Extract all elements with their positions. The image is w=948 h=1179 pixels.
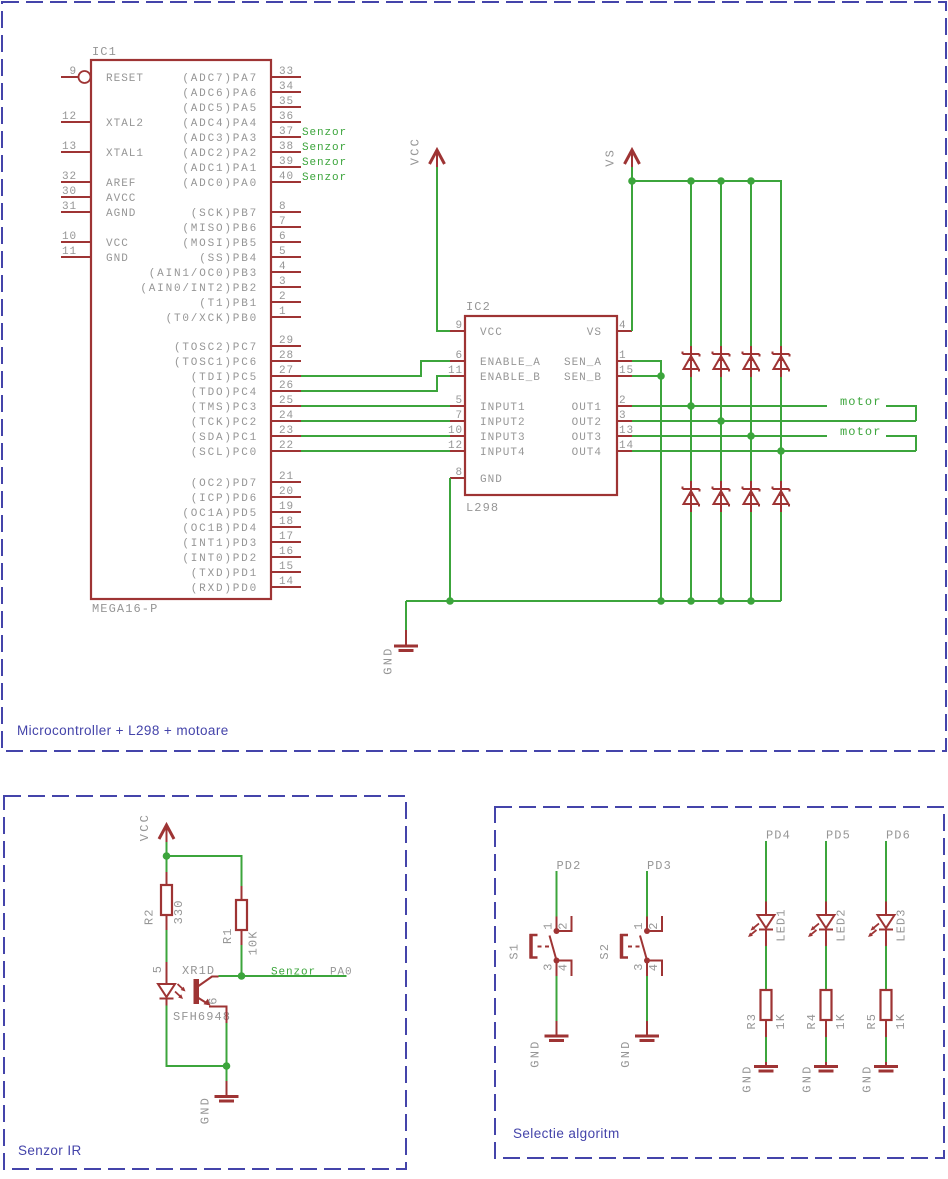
IC1 pin 14 (RXD)PD0 bbox=[191, 576, 301, 595]
resistor R3 pin bottom bbox=[765, 1020, 767, 1037]
svg-text:INPUT1: INPUT1 bbox=[480, 402, 526, 414]
svg-text:(SCK)PB7: (SCK)PB7 bbox=[191, 208, 258, 220]
LED LED3 symbol bbox=[878, 915, 895, 946]
svg-text:33: 33 bbox=[279, 66, 294, 78]
optocoupler XR1D light arrow 2 bbox=[175, 992, 183, 1000]
IC1 pin 12 XTAL2 bbox=[61, 111, 144, 130]
svg-text:(TCK)PC2: (TCK)PC2 bbox=[191, 417, 258, 429]
ground symbol S1 bbox=[545, 1021, 569, 1041]
svg-text:motor: motor bbox=[840, 395, 882, 409]
IC1 pin 10 VCC bbox=[61, 231, 129, 250]
IC1 pin 2 (T1)PB1 bbox=[199, 291, 301, 310]
svg-text:INPUT4: INPUT4 bbox=[480, 447, 526, 459]
svg-text:2: 2 bbox=[647, 921, 661, 929]
svg-text:23: 23 bbox=[279, 425, 294, 437]
LED LED3 light arrow 1 bbox=[871, 924, 880, 931]
svg-text:17: 17 bbox=[279, 531, 294, 543]
svg-text:S1: S1 bbox=[508, 943, 522, 960]
junction rail column 3 bbox=[747, 597, 755, 605]
svg-text:12: 12 bbox=[62, 111, 77, 123]
switch S2 pin 4 hook bbox=[647, 961, 662, 977]
svg-text:30: 30 bbox=[62, 186, 77, 198]
wire junction to R1 top bbox=[167, 856, 242, 886]
wire diode column 4 lower bbox=[780, 511, 782, 601]
svg-text:GND: GND bbox=[741, 1064, 755, 1092]
power symbol VCC arrow bbox=[430, 150, 445, 167]
junction rail column 1 bbox=[687, 597, 695, 605]
wire PD6 to LED3 bbox=[885, 841, 887, 902]
svg-text:(TDI)PC5: (TDI)PC5 bbox=[191, 372, 258, 384]
wire R3 to ground bbox=[765, 1037, 767, 1062]
IC1 pin 29 (TOSC2)PC7 bbox=[174, 335, 301, 354]
svg-text:INPUT3: INPUT3 bbox=[480, 432, 526, 444]
power symbol VCC arrow sensor bbox=[159, 825, 174, 842]
IC1 pin 9 RESET bbox=[61, 66, 144, 85]
svg-text:XTAL2: XTAL2 bbox=[106, 118, 144, 130]
svg-text:R3: R3 bbox=[745, 1013, 759, 1030]
IC1 pin 7 (MISO)PB6 bbox=[182, 216, 301, 235]
svg-text:VS: VS bbox=[587, 327, 602, 339]
ground symbol main bbox=[394, 630, 418, 651]
junction sensor node bbox=[238, 972, 246, 980]
svg-text:S2: S2 bbox=[598, 943, 612, 960]
svg-text:PD5: PD5 bbox=[826, 829, 851, 843]
svg-text:LED2: LED2 bbox=[835, 908, 849, 941]
optocoupler XR1D light arrow 1 bbox=[178, 984, 186, 992]
svg-text:12: 12 bbox=[448, 440, 463, 452]
wire PC3 to INPUT1 bbox=[301, 405, 450, 407]
wire sensor node to collector bbox=[219, 975, 242, 977]
wire PD2 to switch S1 bbox=[556, 871, 558, 917]
IC2 pin 5 INPUT1 bbox=[450, 395, 526, 414]
IC2 pin 14 OUT4 bbox=[572, 440, 634, 459]
IC2 pin 6 ENABLE_A bbox=[450, 350, 541, 369]
svg-text:GND: GND bbox=[861, 1064, 875, 1092]
svg-text:(SS)PB4: (SS)PB4 bbox=[199, 253, 258, 265]
wire diode column 1 lower bbox=[690, 511, 692, 601]
junction rail diode column 1 bbox=[687, 177, 695, 185]
svg-text:PD3: PD3 bbox=[647, 859, 672, 873]
svg-text:14: 14 bbox=[279, 576, 294, 588]
driver IC2 L298 body bbox=[465, 316, 617, 495]
optocoupler XR1D LED pin bbox=[166, 962, 168, 984]
IC1 pin 37 (ADC3)PA3 bbox=[182, 126, 301, 145]
LED LED3 anode pin bbox=[885, 902, 887, 916]
IC1 pin 19 (OC1A)PD5 bbox=[182, 501, 301, 520]
IC1 pin 32 AREF bbox=[61, 171, 136, 190]
svg-text:GND: GND bbox=[480, 474, 503, 486]
wire PD3 to switch S2 bbox=[646, 871, 648, 917]
wire OUT3 left segment bbox=[632, 435, 827, 437]
wire SEN_B to SEN column bbox=[632, 375, 661, 377]
junction rail column 2 bbox=[717, 597, 725, 605]
svg-text:31: 31 bbox=[62, 201, 77, 213]
svg-text:7: 7 bbox=[279, 216, 287, 228]
svg-text:9: 9 bbox=[69, 66, 77, 78]
IC2 pin 10 INPUT3 bbox=[448, 425, 526, 444]
svg-text:PD4: PD4 bbox=[766, 829, 791, 843]
IC1 pin 11 GND bbox=[61, 246, 129, 265]
wire junction to R2 top bbox=[166, 856, 168, 872]
LED LED1 symbol bbox=[758, 915, 775, 946]
LED LED1 light arrow 1 bbox=[751, 924, 760, 931]
svg-text:5: 5 bbox=[279, 246, 287, 258]
svg-text:4: 4 bbox=[279, 261, 287, 273]
svg-text:39: 39 bbox=[279, 156, 294, 168]
switch S1 pin 3 bbox=[556, 961, 558, 977]
IC1 pin 27 (TDI)PC5 bbox=[191, 365, 301, 384]
power symbol VS arrow bbox=[625, 150, 640, 167]
resistor R1 pin top bbox=[241, 886, 243, 900]
IC2 pin 13 OUT3 bbox=[572, 425, 634, 444]
wire PC0 to INPUT4 bbox=[301, 450, 450, 452]
switch S2 pin 3 bbox=[646, 961, 648, 977]
svg-text:GND: GND bbox=[199, 1096, 213, 1124]
junction OUT2 diode column 2 bbox=[717, 417, 725, 425]
junction SEN_B bbox=[657, 372, 665, 380]
wire LED2 to R4 bbox=[825, 946, 827, 990]
IC2 pin 2 OUT1 bbox=[572, 395, 632, 414]
IC1 pin 3 (AIN0/INT2)PB2 bbox=[140, 276, 301, 295]
svg-text:29: 29 bbox=[279, 335, 294, 347]
svg-text:R4: R4 bbox=[805, 1013, 819, 1030]
resistor R2 pin bottom bbox=[166, 915, 168, 930]
IC1 pin 38 (ADC2)PA2 bbox=[182, 141, 301, 160]
svg-text:(T0/XCK)PB0: (T0/XCK)PB0 bbox=[166, 313, 258, 325]
svg-text:(OC1A)PD5: (OC1A)PD5 bbox=[182, 508, 258, 520]
svg-text:8: 8 bbox=[279, 201, 287, 213]
IC1 pin 13 XTAL1 bbox=[61, 141, 144, 160]
IC1 pin 1 (T0/XCK)PB0 bbox=[166, 306, 301, 325]
wire switch S1 to ground bbox=[556, 976, 558, 1021]
wire diode column 3 middle bbox=[750, 377, 752, 481]
svg-text:4: 4 bbox=[647, 963, 661, 971]
wire diode column 1 middle bbox=[690, 377, 692, 481]
optocoupler XR1D collector bbox=[199, 977, 219, 987]
wire VCC to divider junction bbox=[166, 842, 168, 856]
svg-text:4: 4 bbox=[557, 963, 571, 971]
svg-text:15: 15 bbox=[279, 561, 294, 573]
wire OUT1 left segment bbox=[632, 405, 827, 407]
resistor R2 body bbox=[161, 885, 172, 915]
wire node to GND bbox=[226, 1066, 228, 1081]
switch S1 contact dot 2 bbox=[554, 958, 560, 964]
switch S2 pin 1 bbox=[646, 917, 648, 932]
svg-text:18: 18 bbox=[279, 516, 294, 528]
svg-text:INPUT2: INPUT2 bbox=[480, 417, 526, 429]
svg-text:MEGA16-P: MEGA16-P bbox=[92, 602, 158, 616]
svg-text:27: 27 bbox=[279, 365, 294, 377]
svg-text:3: 3 bbox=[279, 276, 287, 288]
svg-text:Microcontroller + L298 + motoa: Microcontroller + L298 + motoare bbox=[17, 723, 229, 738]
switch S2 actuator bracket bbox=[620, 934, 628, 959]
wire diode column 2 middle bbox=[720, 377, 722, 481]
svg-text:3: 3 bbox=[632, 962, 646, 970]
svg-text:28: 28 bbox=[279, 350, 294, 362]
optocoupler XR1D emitter with arrow bbox=[199, 998, 227, 1023]
wire sensor net Senzor PA0 bbox=[242, 975, 347, 977]
svg-text:L298: L298 bbox=[466, 501, 499, 515]
IC2 pin 15 SEN_B bbox=[564, 365, 634, 384]
switch S1 actuator bracket bbox=[530, 934, 538, 959]
svg-text:GND: GND bbox=[619, 1039, 633, 1067]
IC2 pin 1 SEN_A bbox=[564, 350, 632, 369]
IC1 pin 6 (MOSI)PB5 bbox=[182, 231, 301, 250]
svg-text:32: 32 bbox=[62, 171, 77, 183]
svg-text:(SDA)PC1: (SDA)PC1 bbox=[191, 432, 258, 444]
svg-text:6: 6 bbox=[207, 996, 221, 1004]
svg-text:IC1: IC1 bbox=[92, 45, 117, 59]
wire IC2 pin 8 to ground rail bbox=[449, 478, 451, 601]
svg-text:16: 16 bbox=[279, 546, 294, 558]
svg-text:IC2: IC2 bbox=[466, 300, 491, 314]
IC1 pin 34 (ADC6)PA6 bbox=[182, 81, 301, 100]
junction VCC divider bbox=[163, 852, 171, 860]
LED LED3 light arrow 2 bbox=[868, 930, 877, 937]
svg-text:14: 14 bbox=[619, 440, 634, 452]
svg-text:LED1: LED1 bbox=[775, 908, 789, 941]
wire VS vertical to IC2 pin 4 bbox=[631, 167, 633, 331]
svg-text:(AIN0/INT2)PB2: (AIN0/INT2)PB2 bbox=[140, 283, 258, 295]
svg-text:2: 2 bbox=[279, 291, 287, 303]
wire R5 to ground bbox=[885, 1037, 887, 1062]
switch S1 actuator dashed link bbox=[538, 946, 551, 948]
switch S2 actuator dashed link bbox=[628, 946, 641, 948]
wire diode column 2 upper bbox=[720, 181, 722, 346]
svg-text:1: 1 bbox=[619, 350, 627, 362]
optocoupler XR1D phototransistor base bar bbox=[194, 979, 200, 1004]
wire opto LED cathode down bbox=[167, 1006, 227, 1067]
svg-text:(RXD)PD0: (RXD)PD0 bbox=[191, 583, 258, 595]
svg-text:Senzor IR: Senzor IR bbox=[18, 1143, 82, 1158]
svg-text:6: 6 bbox=[455, 350, 463, 362]
svg-text:15: 15 bbox=[619, 365, 634, 377]
svg-text:R1: R1 bbox=[221, 927, 235, 944]
IC1 pin 39 (ADC1)PA1 bbox=[182, 156, 301, 175]
svg-text:(MISO)PB6: (MISO)PB6 bbox=[182, 223, 258, 235]
svg-text:OUT2: OUT2 bbox=[572, 417, 602, 429]
svg-text:25: 25 bbox=[279, 395, 294, 407]
IC1 pin 18 (OC1B)PD4 bbox=[182, 516, 301, 535]
svg-text:(AIN1/OC0)PB3: (AIN1/OC0)PB3 bbox=[149, 268, 258, 280]
svg-text:PA0: PA0 bbox=[330, 967, 353, 979]
svg-text:PD2: PD2 bbox=[557, 859, 582, 873]
optocoupler XR1D LED symbol bbox=[158, 984, 175, 1006]
svg-text:ENABLE_A: ENABLE_A bbox=[480, 357, 541, 369]
switch S1 pin 1 bbox=[556, 917, 558, 932]
IC1 pin 21 (OC2)PD7 bbox=[191, 471, 301, 490]
svg-text:(ADC7)PA7: (ADC7)PA7 bbox=[182, 73, 258, 85]
svg-text:AREF: AREF bbox=[106, 178, 136, 190]
svg-text:8: 8 bbox=[455, 467, 463, 479]
wire R2 to opto LED bbox=[166, 930, 168, 962]
IC1 pin 23 (SDA)PC1 bbox=[191, 425, 301, 444]
svg-text:XTAL1: XTAL1 bbox=[106, 148, 144, 160]
svg-text:13: 13 bbox=[619, 425, 634, 437]
svg-text:4: 4 bbox=[619, 320, 627, 332]
IC2 pin 9 VCC bbox=[450, 320, 503, 339]
svg-text:(TOSC1)PC6: (TOSC1)PC6 bbox=[174, 357, 258, 369]
switch S2 lever bbox=[640, 936, 647, 959]
junction rail SEN column bbox=[657, 597, 665, 605]
svg-text:R5: R5 bbox=[865, 1013, 879, 1030]
svg-text:10: 10 bbox=[448, 425, 463, 437]
diode D2 upper bbox=[713, 346, 730, 377]
junction OUT1 diode column 1 bbox=[687, 402, 695, 410]
IC1 pin 22 (SCL)PC0 bbox=[191, 440, 301, 459]
diode D5 lower bbox=[683, 481, 700, 512]
wire OUT2 to motor bbox=[632, 420, 916, 422]
svg-text:OUT4: OUT4 bbox=[572, 447, 602, 459]
svg-text:5: 5 bbox=[455, 395, 463, 407]
diode D4 upper bbox=[773, 346, 790, 377]
svg-text:(ADC2)PA2: (ADC2)PA2 bbox=[182, 148, 258, 160]
svg-text:OUT1: OUT1 bbox=[572, 402, 602, 414]
IC1 pin 17 (INT1)PD3 bbox=[182, 531, 301, 550]
IC1 pin 25 (TMS)PC3 bbox=[191, 395, 301, 414]
LED LED2 symbol bbox=[818, 915, 835, 946]
switch S1 pin 2 hook bbox=[557, 916, 572, 931]
switch S1 lever bbox=[550, 936, 557, 959]
svg-text:3: 3 bbox=[542, 962, 556, 970]
IC1 pin 24 (TCK)PC2 bbox=[191, 410, 301, 429]
wire SEN_A to SEN column bbox=[632, 361, 661, 601]
junction rail diode column 3 bbox=[747, 177, 755, 185]
IC1 pin 5 (SS)PB4 bbox=[199, 246, 301, 265]
LED LED2 anode pin bbox=[825, 902, 827, 916]
svg-text:5: 5 bbox=[151, 965, 165, 973]
svg-text:13: 13 bbox=[62, 141, 77, 153]
svg-text:OUT3: OUT3 bbox=[572, 432, 602, 444]
svg-text:9: 9 bbox=[455, 320, 463, 332]
svg-text:(ADC6)PA6: (ADC6)PA6 bbox=[182, 88, 258, 100]
LED LED2 light arrow 1 bbox=[811, 924, 820, 931]
svg-text:(TOSC2)PC7: (TOSC2)PC7 bbox=[174, 342, 258, 354]
LED LED1 light arrow 2 bbox=[748, 930, 757, 937]
wire VCC to IC2 pin 9 bbox=[437, 167, 450, 331]
junction rail pin8 bbox=[446, 597, 454, 605]
wire emitter down bbox=[226, 1023, 228, 1066]
svg-text:AGND: AGND bbox=[106, 208, 136, 220]
svg-text:36: 36 bbox=[279, 111, 294, 123]
svg-text:PD6: PD6 bbox=[886, 829, 911, 843]
svg-text:(ADC0)PA0: (ADC0)PA0 bbox=[182, 178, 258, 190]
svg-text:7: 7 bbox=[455, 410, 463, 422]
ground symbol LED3 bbox=[874, 1062, 898, 1071]
IC1 pin 15 (TXD)PD1 bbox=[191, 561, 301, 580]
svg-text:AVCC: AVCC bbox=[106, 193, 136, 205]
svg-text:GND: GND bbox=[106, 253, 129, 265]
microcontroller IC1 MEGA16-P body bbox=[91, 60, 271, 599]
IC2 pin 12 INPUT4 bbox=[448, 440, 526, 459]
resistor R4 pin bottom bbox=[825, 1020, 827, 1037]
frame Microcontroller + L298 + motoare bbox=[2, 2, 946, 751]
IC2 pin 11 ENABLE_B bbox=[448, 365, 541, 384]
IC1 pin 40 (ADC0)PA0 bbox=[182, 171, 301, 190]
diode D6 lower bbox=[713, 481, 730, 512]
resistor R1 pin bottom bbox=[241, 930, 243, 945]
svg-text:1K: 1K bbox=[774, 1013, 788, 1030]
svg-text:(ADC4)PA4: (ADC4)PA4 bbox=[182, 118, 258, 130]
IC1 pin 30 AVCC bbox=[61, 186, 136, 205]
wire diode column 2 lower bbox=[720, 511, 722, 601]
switch S1 contact dot 1 bbox=[554, 928, 560, 934]
svg-text:21: 21 bbox=[279, 471, 294, 483]
svg-text:motor: motor bbox=[840, 425, 882, 439]
IC2 pin 8 GND bbox=[450, 467, 503, 486]
junction sensor ground node bbox=[223, 1062, 231, 1070]
IC1 pin 28 (TOSC1)PC6 bbox=[174, 350, 301, 369]
svg-text:6: 6 bbox=[279, 231, 287, 243]
IC2 pin 7 INPUT2 bbox=[450, 410, 526, 429]
IC1 pin 31 AGND bbox=[61, 201, 136, 220]
svg-text:(MOSI)PB5: (MOSI)PB5 bbox=[182, 238, 258, 250]
svg-text:10K: 10K bbox=[247, 930, 261, 955]
wire switch S2 to ground bbox=[646, 976, 648, 1021]
svg-text:2: 2 bbox=[619, 395, 627, 407]
wire PD4 to LED1 bbox=[765, 841, 767, 902]
IC1 pin 35 (ADC5)PA5 bbox=[182, 96, 301, 115]
svg-text:11: 11 bbox=[448, 365, 463, 377]
svg-text:SFH6948: SFH6948 bbox=[173, 1010, 231, 1024]
ground symbol sensor bbox=[215, 1081, 239, 1101]
junction rail diode column 2 bbox=[717, 177, 725, 185]
svg-text:(INT1)PD3: (INT1)PD3 bbox=[182, 538, 258, 550]
svg-text:(ICP)PD6: (ICP)PD6 bbox=[191, 493, 258, 505]
svg-text:(OC2)PD7: (OC2)PD7 bbox=[191, 478, 258, 490]
diode D3 upper bbox=[743, 346, 760, 377]
svg-text:RESET: RESET bbox=[106, 73, 144, 85]
wire LED1 to R3 bbox=[765, 946, 767, 990]
svg-text:11: 11 bbox=[62, 246, 77, 258]
svg-text:330: 330 bbox=[172, 899, 186, 924]
resistor R4 body bbox=[821, 990, 832, 1020]
wire LED3 to R5 bbox=[885, 946, 887, 990]
switch S2 pin 2 hook bbox=[647, 916, 662, 931]
svg-text:(ADC5)PA5: (ADC5)PA5 bbox=[182, 103, 258, 115]
svg-text:3: 3 bbox=[619, 410, 627, 422]
wire R4 to ground bbox=[825, 1037, 827, 1062]
svg-text:SEN_A: SEN_A bbox=[564, 357, 602, 369]
svg-text:(OC1B)PD4: (OC1B)PD4 bbox=[182, 523, 258, 535]
IC2 pin 3 OUT2 bbox=[572, 410, 632, 429]
wire diode column 1 upper bbox=[690, 181, 692, 346]
svg-text:34: 34 bbox=[279, 81, 294, 93]
svg-text:Senzor: Senzor bbox=[302, 172, 347, 184]
wire OUT4 to motor bbox=[632, 450, 916, 452]
svg-text:VCC: VCC bbox=[409, 137, 423, 165]
diode D1 upper bbox=[683, 346, 700, 377]
wire PC4 to ENABLE_B bbox=[301, 376, 450, 391]
svg-text:LED3: LED3 bbox=[895, 908, 909, 941]
wire diode column 3 lower bbox=[750, 511, 752, 601]
junction VS rail bbox=[628, 177, 636, 185]
svg-text:Senzor: Senzor bbox=[271, 967, 316, 979]
diode D7 lower bbox=[743, 481, 760, 512]
svg-text:1: 1 bbox=[279, 306, 287, 318]
svg-text:ENABLE_B: ENABLE_B bbox=[480, 372, 541, 384]
LED LED1 anode pin bbox=[765, 902, 767, 916]
IC1 pin 16 (INT0)PD2 bbox=[182, 546, 301, 565]
svg-text:(TMS)PC3: (TMS)PC3 bbox=[191, 402, 258, 414]
resistor R2 pin top bbox=[166, 872, 168, 885]
svg-text:(ADC1)PA1: (ADC1)PA1 bbox=[182, 163, 258, 175]
wire ground rail bbox=[406, 600, 781, 602]
svg-text:10: 10 bbox=[62, 231, 77, 243]
svg-text:GND: GND bbox=[801, 1064, 815, 1092]
svg-text:22: 22 bbox=[279, 440, 294, 452]
switch S2 contact dot 1 bbox=[644, 928, 650, 934]
